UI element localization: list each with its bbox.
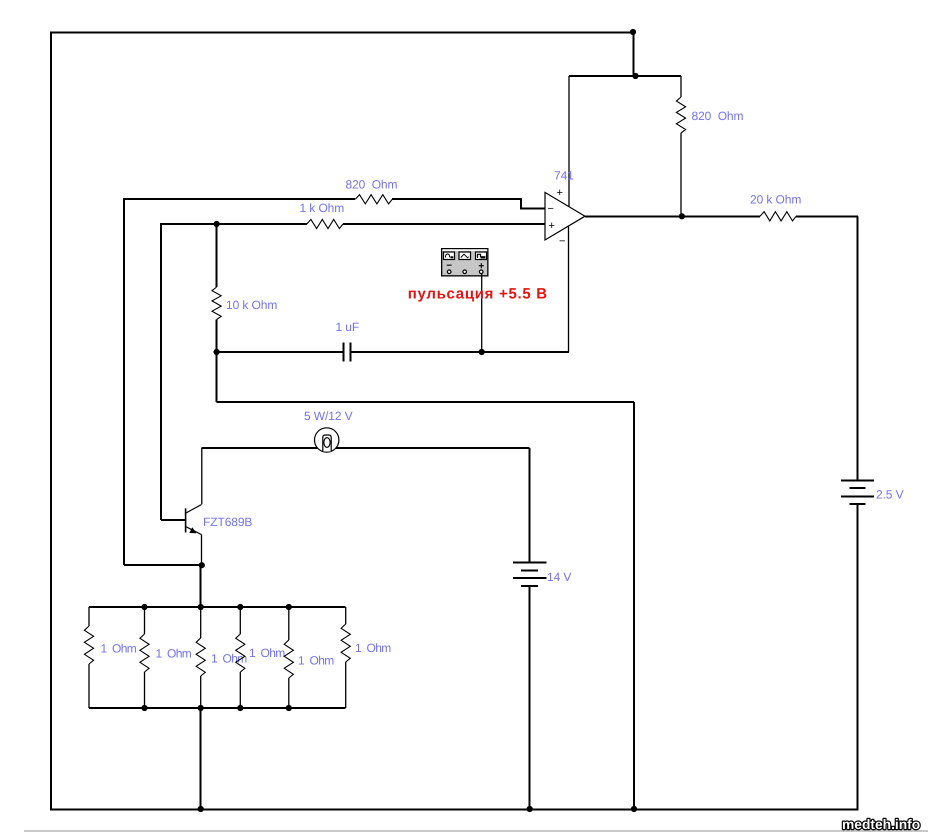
wire left feedback vertical x124 [123,198,125,565]
wire non-inverting branch left segment [161,223,307,225]
svg-text:14 V: 14 V [547,570,571,584]
wire resistor bank bottom bus [89,707,346,709]
resistor R 1 Ohm #6 leads [345,607,347,708]
node junction ground rail middle [527,806,533,812]
wire node jog down to feedback rail [633,32,635,76]
node junction top bus [141,604,147,610]
svg-text:820 Ohm: 820 Ohm [692,109,744,123]
wire feedback top horizontal [569,75,681,77]
wire resistor bank to ground rail [200,708,202,810]
node junction top bus [286,604,292,610]
wire emitter down [201,535,203,566]
svg-text:1 Ohm: 1 Ohm [101,642,137,656]
lamp 5 W/12 V [315,428,339,452]
battery 14 V [513,562,546,586]
generator terminal minus [447,270,451,274]
transistor Q FZT689B npn [186,505,202,535]
resistor R 1 Ohm #5 leads [288,607,290,708]
wire non-inverting branch right segment [343,223,545,225]
wire emitter rail from left loop [124,564,202,566]
node junction ground rail right [631,806,637,812]
node junction bottom bus [141,705,147,711]
node junction top bus [198,604,204,610]
wire horizontal y402 [217,401,634,403]
wire right vertical above battery [857,216,859,480]
wire op-amp V- pin vertical down to capacitor rail [568,226,570,352]
generator terminal plus [479,270,483,274]
node junction bottom bus [286,705,292,711]
wire top rail from left loop to output node [51,31,633,33]
wire op-amp output [585,215,760,217]
wire inverting input branch left segment [124,198,355,200]
wire 10k bottom lead [216,320,218,353]
wire inverting input branch right segment with step [392,199,545,209]
wire resistor bank top bus [89,606,346,608]
svg-text:+: + [557,187,563,199]
op-amp U1 741 triangle [545,192,585,240]
svg-text:1 Ohm: 1 Ohm [298,654,334,668]
wire collector up to lamp rail [201,448,203,504]
resistor R 1 Ohm #5 zigzag [284,640,293,678]
wire generator plus terminal down to cap rail [481,274,483,353]
button square wave [476,252,487,260]
svg-text:−: − [548,203,554,215]
wire 10k top lead [216,224,218,287]
node junction feedback rail [632,73,638,79]
wire battery 14V bottom lead to ground rail [529,586,531,810]
node junction generator tap [479,349,485,355]
wire output right segment [796,215,858,217]
resistor R 1 Ohm #2 leads [144,607,146,708]
svg-text:10 k Ohm: 10 k Ohm [226,298,277,312]
button sine wave [444,252,455,260]
svg-text:1 Ohm: 1 Ohm [355,641,391,655]
svg-text:820 Ohm: 820 Ohm [346,178,398,192]
svg-text:1 uF: 1 uF [336,320,360,334]
resistor R 1 Ohm #3 zigzag [196,638,205,676]
battery 2.5 V [841,480,874,504]
wire bottom ground rail [51,809,858,811]
svg-text:+: + [549,220,555,232]
resistor R 1 Ohm #1 leads [88,607,90,708]
svg-text:пульсация +5.5 В: пульсация +5.5 В [408,286,548,303]
button triangle wave [459,252,471,260]
svg-text:2.5 V: 2.5 V [876,488,904,502]
wire from cap rail down [216,352,218,402]
resistor R 1 Ohm #2 zigzag [140,634,149,672]
node junction bottom bus [237,705,243,711]
svg-text:−: − [559,236,565,248]
node junction output [679,213,685,219]
resistor R 1 Ohm #6 zigzag [341,624,350,662]
resistor R 820 Ohm vertical zigzag [676,97,685,133]
node junction ground rail left [198,806,204,812]
generator terminal common [463,270,467,274]
svg-text:20 k Ohm: 20 k Ohm [750,193,801,207]
svg-text:1 Ohm: 1 Ohm [156,647,192,661]
wire base branch horizontal to transistor [161,519,185,521]
node junction bottom bus [198,705,204,711]
svg-text:5 W/12 V: 5 W/12 V [304,409,353,423]
wire battery 14V top lead [529,448,531,562]
resistor R 1 Ohm #4 leads [239,607,241,708]
wire op-amp V+ pin vertical [568,76,570,207]
capacitor C 1 uF [344,343,351,362]
svg-text:1 k Ohm: 1 k Ohm [300,201,345,215]
node junction top bus [237,604,243,610]
resistor R 1 k Ohm horizontal [307,219,343,228]
node junction at 1k/10k tap [214,221,220,227]
node junction top [630,29,636,35]
wire base branch vertical x161 [160,223,162,520]
svg-text:1 Ohm: 1 Ohm [249,646,285,660]
resistor R 1 Ohm #1 zigzag [84,626,93,664]
wire capacitor rail left [217,351,343,353]
wire capacitor rail right [352,351,570,353]
node junction capacitor rail left [214,349,220,355]
resistor R 1 Ohm #3 leads [200,607,202,708]
resistor R 820 Ohm horizontal (inverting input) [355,195,392,204]
resistor R 820 Ohm vertical feedback: top lead [680,76,682,97]
instrument function generator body [441,248,489,277]
wire vertical x634 down to ground rail [633,402,635,810]
wire emitter node down to resistor bank [200,565,202,607]
svg-text:medteh.info: medteh.info [842,817,920,832]
wire right vertical below battery [857,504,859,810]
node junction emitter [199,562,205,568]
wire lamp rail [202,447,530,449]
resistor R 1 Ohm #4 zigzag [236,634,245,672]
resistor R 20 k Ohm horizontal [760,212,796,221]
svg-text:FZT689B: FZT689B [203,515,252,529]
watermark separator line [24,830,928,832]
resistor R 10 k Ohm vertical [212,287,221,320]
wire left outer vertical [50,31,52,810]
resistor R 820 Ohm vertical bottom lead [680,133,682,216]
svg-text:741: 741 [554,169,574,183]
